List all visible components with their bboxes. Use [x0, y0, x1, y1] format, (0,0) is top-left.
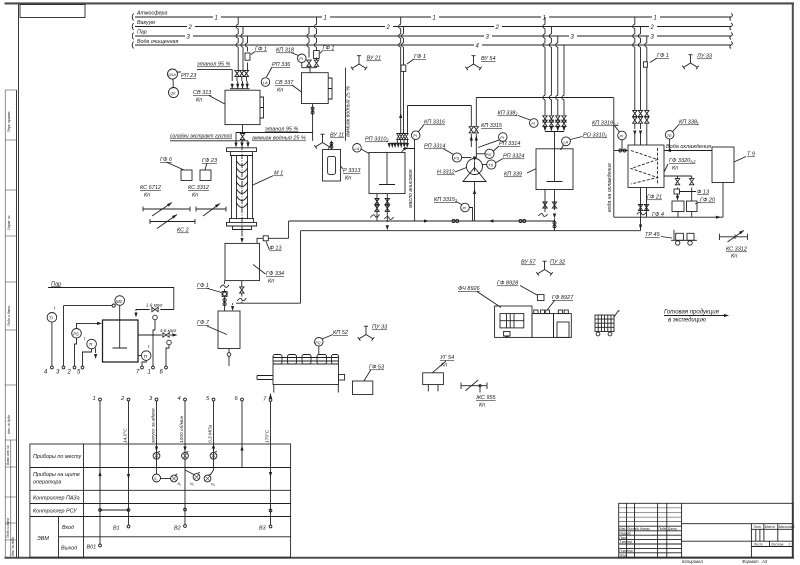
svg-text:Лист: Лист [626, 527, 636, 531]
svg-text:ГФ 20: ГФ 20 [700, 198, 716, 204]
svg-text:КП 338₁: КП 338₁ [679, 120, 699, 126]
svg-text:Инв. № дубл.: Инв. № дубл. [7, 414, 11, 434]
svg-text:СВ 313: СВ 313 [193, 90, 212, 96]
svg-text:в экспедицию: в экспедицию [668, 318, 707, 324]
svg-text:Листов: Листов [770, 543, 784, 547]
svg-text:ГФ 21: ГФ 21 [647, 195, 662, 201]
svg-text:ВУ 21: ВУ 21 [367, 56, 382, 62]
svg-text:КП 3315₂: КП 3315₂ [434, 197, 458, 203]
svg-text:Вакуум: Вакуум [137, 20, 155, 26]
svg-text:Выход: Выход [61, 546, 77, 552]
svg-text:Ф 13: Ф 13 [270, 246, 283, 252]
svg-text:Масштаб: Масштаб [779, 525, 795, 529]
svg-text:PS: PS [454, 156, 460, 161]
svg-text:Кп: Кп [731, 254, 737, 260]
svg-text:PS: PS [73, 332, 79, 337]
svg-text:LA: LA [263, 80, 268, 85]
svg-text:В01: В01 [87, 545, 97, 551]
svg-text:ПУ 33: ПУ 33 [372, 325, 388, 331]
svg-text:РП 3314: РП 3314 [424, 144, 445, 150]
svg-text:Т.контр.: Т.контр. [619, 540, 633, 544]
svg-text:ГФ 334: ГФ 334 [266, 271, 284, 277]
svg-text:Копировал: Копировал [682, 559, 703, 564]
svg-text:1: 1 [215, 15, 218, 21]
svg-text:1: 1 [654, 15, 657, 21]
svg-text:ТР 45: ТР 45 [645, 232, 661, 238]
svg-text:2: 2 [188, 25, 193, 31]
svg-text:Кп: Кп [268, 279, 274, 285]
svg-text:оператора: оператора [33, 480, 61, 486]
svg-text:Контроллер РСУ: Контроллер РСУ [33, 509, 77, 515]
svg-text:ГФ 1: ГФ 1 [657, 53, 669, 59]
svg-text:Вода охлаждения: Вода охлаждения [666, 144, 711, 150]
svg-text:А3: А3 [761, 559, 768, 564]
svg-text:М2: М2 [116, 299, 123, 304]
svg-text:Формат: Формат [742, 559, 759, 564]
svg-text:вода на охлаждение: вода на охлаждение [607, 163, 613, 212]
svg-text:1: 1 [789, 543, 791, 547]
svg-text:Пар: Пар [137, 30, 147, 36]
svg-text:Вход: Вход [62, 525, 74, 531]
svg-text:ГФ 4: ГФ 4 [652, 212, 664, 218]
svg-text:ГФ 7: ГФ 7 [197, 320, 210, 326]
svg-text:СВ 337: СВ 337 [275, 80, 294, 86]
svg-text:Перв. примен.: Перв. примен. [7, 111, 11, 132]
svg-text:ФЧ 8926: ФЧ 8926 [458, 286, 481, 292]
svg-text:Ф 13: Ф 13 [697, 190, 710, 196]
svg-text:Справ. №: Справ. № [7, 215, 11, 230]
svg-text:РП 23: РП 23 [181, 73, 197, 79]
svg-text:КС 2: КС 2 [177, 228, 189, 234]
svg-text:масло анисовое: масло анисовое [408, 169, 414, 208]
svg-text:1000 об/мин: 1000 об/мин [179, 415, 185, 443]
svg-text:РП 3310₂: РП 3310₂ [365, 137, 389, 143]
svg-text:ГФ 1: ГФ 1 [323, 46, 335, 52]
svg-text:4: 4 [178, 396, 181, 402]
svg-text:Л₁: Л₁ [153, 477, 159, 481]
svg-text:РП 3314: РП 3314 [499, 141, 520, 147]
svg-text:№ докум.: № докум. [636, 527, 651, 531]
svg-text:14,0°С: 14,0°С [123, 428, 129, 443]
svg-text:М 1: М 1 [274, 171, 283, 177]
svg-text:Кп: Кп [345, 176, 351, 182]
svg-text:ГФ 53: ГФ 53 [369, 365, 385, 371]
svg-text:Инв. № подл.: Инв. № подл. [11, 536, 15, 556]
svg-text:Кп: Кп [196, 98, 202, 104]
svg-text:PIS: PIS [486, 153, 492, 157]
svg-text:КС 6712: КС 6712 [140, 185, 161, 191]
svg-text:этанол 95 %: этанол 95 % [197, 62, 231, 68]
svg-text:РП 3324: РП 3324 [503, 154, 524, 160]
svg-text:ГФ 1: ГФ 1 [255, 47, 267, 53]
svg-text:LA: LA [354, 146, 359, 151]
svg-text:1: 1 [433, 15, 436, 21]
svg-text:N₃: N₃ [211, 483, 216, 487]
svg-text:Н.контр.: Н.контр. [619, 549, 633, 553]
svg-text:КП 3315: КП 3315 [481, 123, 503, 129]
svg-text:TE: TE [667, 133, 672, 138]
svg-text:2: 2 [67, 370, 72, 376]
svg-text:КП 52: КП 52 [333, 330, 348, 336]
svg-text:Утв.: Утв. [619, 553, 627, 557]
svg-text:КП 3319₁,₂: КП 3319₁,₂ [592, 121, 619, 127]
svg-text:Подп.: Подп. [658, 527, 667, 531]
svg-text:Пров.: Пров. [619, 536, 628, 540]
svg-text:1-й круг: 1-й круг [146, 303, 163, 308]
svg-text:4-й круг: 4-й круг [160, 328, 177, 333]
svg-text:ВУ 11: ВУ 11 [330, 133, 344, 139]
svg-text:1: 1 [148, 370, 151, 376]
svg-text:N₂: N₂ [190, 482, 195, 486]
svg-text:Кп: Кп [192, 193, 198, 199]
svg-text:Пар: Пар [51, 282, 61, 288]
svg-text:Дата: Дата [667, 527, 677, 531]
svg-text:В3: В3 [259, 526, 266, 532]
svg-text:Лит.: Лит. [753, 525, 762, 529]
svg-text:ЭВМ: ЭВМ [37, 536, 49, 542]
svg-text:ГФ 8928: ГФ 8928 [497, 281, 519, 287]
svg-text:РП 336: РП 336 [272, 62, 291, 68]
svg-text:TS: TS [488, 163, 493, 168]
svg-text:170°С: 170°С [265, 429, 271, 443]
svg-text:LA: LA [563, 139, 568, 144]
svg-text:КП 338₂: КП 338₂ [498, 111, 519, 117]
svg-text:ЖС 955: ЖС 955 [475, 395, 497, 401]
svg-text:этанол 95 %: этанол 95 % [265, 127, 299, 133]
svg-text:КП 339: КП 339 [504, 172, 522, 178]
svg-text:Приборы по месту: Приборы по месту [33, 454, 82, 460]
svg-text:Р 3313: Р 3313 [343, 168, 361, 174]
svg-text:Готовая продукция: Готовая продукция [664, 310, 720, 316]
svg-text:Разраб.: Разраб. [619, 531, 631, 535]
svg-text:PQ: PQ [315, 341, 320, 345]
svg-text:запуск за вдвое: запуск за вдвое [151, 408, 157, 444]
svg-text:КС 3312: КС 3312 [188, 185, 209, 191]
svg-text:ВУ 57: ВУ 57 [521, 260, 536, 266]
svg-text:ГФ 3320₁,₂: ГФ 3320₁,₂ [669, 158, 696, 164]
svg-text:0,3 МПа: 0,3 МПа [208, 425, 214, 443]
svg-text:Изм.: Изм. [619, 527, 626, 531]
svg-text:QE: QE [171, 92, 177, 96]
svg-text:Подп. и дата: Подп. и дата [6, 518, 10, 538]
svg-text:Масса: Масса [765, 525, 775, 529]
svg-text:Атмосфера: Атмосфера [136, 11, 167, 17]
svg-text:Кп: Кп [441, 363, 447, 369]
svg-text:ГФ 1: ГФ 1 [414, 54, 426, 60]
svg-text:1: 1 [93, 396, 96, 402]
svg-text:В2: В2 [174, 526, 181, 532]
svg-text:Т 9: Т 9 [747, 152, 755, 158]
svg-text:соладки экстракт густой: соладки экстракт густой [170, 133, 232, 140]
svg-text:РО 3310₂: РО 3310₂ [583, 133, 608, 139]
svg-text:В1: В1 [113, 526, 120, 532]
svg-text:ГФ 8927: ГФ 8927 [552, 295, 574, 301]
svg-text:Н 3312: Н 3312 [437, 170, 455, 176]
svg-text:Приборы на щите: Приборы на щите [33, 472, 80, 478]
svg-text:УГ 54: УГ 54 [439, 355, 454, 361]
svg-text:Подп. и дата: Подп. и дата [7, 306, 11, 326]
svg-text:Кп: Кп [277, 88, 283, 94]
svg-text:КП 3316: КП 3316 [424, 120, 446, 126]
svg-text:Вода очищенная: Вода очищенная [137, 39, 178, 45]
svg-text:Кп: Кп [479, 403, 485, 409]
svg-text:2: 2 [495, 25, 500, 31]
svg-text:Взам. инв. №: Взам. инв. № [6, 445, 10, 465]
svg-text:КС 3312: КС 3312 [726, 247, 747, 253]
svg-text:2: 2 [650, 25, 655, 31]
svg-text:Лист: Лист [753, 543, 763, 547]
svg-text:аммиак водный 25 %: аммиак водный 25 % [252, 135, 306, 142]
svg-text:Контроллер ПАЗа: Контроллер ПАЗа [33, 496, 80, 502]
svg-text:ГФ 23: ГФ 23 [202, 158, 218, 164]
svg-text:ЛУ 33: ЛУ 33 [696, 54, 713, 60]
svg-text:аммиак водный 25 %: аммиак водный 25 % [345, 86, 352, 137]
svg-text:Кп: Кп [144, 193, 150, 199]
svg-text:1: 1 [324, 15, 327, 21]
svg-text:ВУ 54: ВУ 54 [481, 56, 496, 62]
svg-text:ПУ 32: ПУ 32 [550, 260, 565, 266]
svg-text:QSA: QSA [168, 73, 176, 77]
svg-text:Кп: Кп [672, 166, 678, 172]
svg-text:2: 2 [386, 25, 391, 31]
